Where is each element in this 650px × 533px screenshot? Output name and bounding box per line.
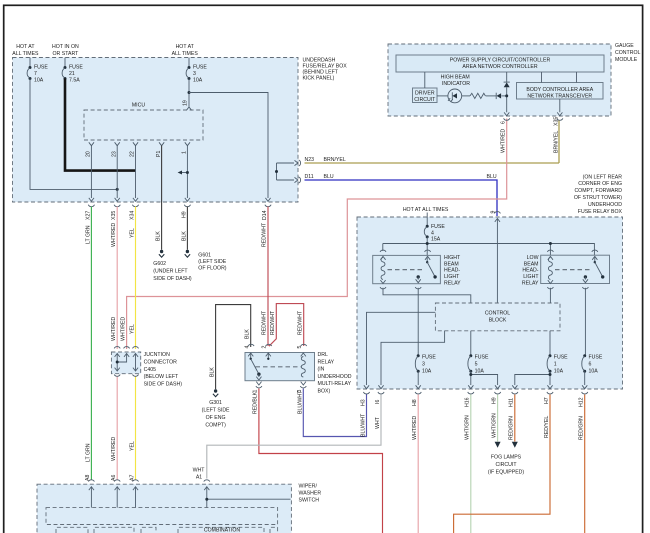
pin 5 DRL connector: [297, 344, 307, 356]
svg-text:BLU/WHT: BLU/WHT: [297, 390, 303, 414]
svg-text:A8: A8: [85, 475, 91, 481]
svg-text:20: 20: [86, 151, 92, 157]
LB relay coil: [548, 258, 552, 280]
svg-text:BLOCK: BLOCK: [489, 317, 507, 323]
fuse 4 15A: [424, 224, 445, 243]
high beam indicator lamp: [441, 75, 471, 103]
wire C405 internal YEL: [135, 354, 137, 371]
connector pin C405 top (YEL in): [133, 347, 139, 357]
svg-text:JUCNTION: JUCNTION: [144, 352, 170, 358]
node HOT AT ALL TIMES (fuse 3): [172, 44, 199, 57]
svg-text:CONTROL: CONTROL: [615, 50, 640, 56]
svg-text:WASHER: WASHER: [299, 491, 322, 497]
net D11 BLU label: [305, 174, 334, 180]
svg-text:WHT/RED: WHT/RED: [111, 223, 117, 247]
svg-text:RED/WHT: RED/WHT: [297, 310, 303, 335]
pin 22 MICU: [130, 142, 138, 157]
svg-text:I6: I6: [375, 400, 381, 404]
MICU box: [84, 103, 203, 140]
svg-text:COMBINATION: COMBINATION: [204, 528, 240, 533]
wire transceiver to pin X35: [559, 99, 561, 112]
svg-text:HOT IN ON: HOT IN ON: [52, 44, 79, 50]
svg-text:RED/YEL: RED/YEL: [544, 416, 550, 438]
svg-text:YEL: YEL: [130, 441, 136, 451]
wire BLU horizontal: [305, 174, 498, 216]
LB relay switch: [583, 256, 605, 282]
wire RED/GRN (H11 to fog lamps): [509, 395, 518, 448]
svg-text:6: 6: [500, 121, 506, 124]
svg-text:A7: A7: [129, 475, 135, 481]
svg-text:(BELOW LEFT: (BELOW LEFT: [144, 374, 179, 380]
svg-text:YEL: YEL: [130, 324, 136, 334]
svg-text:FUSE: FUSE: [422, 355, 436, 361]
svg-text:BLK: BLK: [245, 329, 251, 339]
wiper internal wires: [91, 487, 290, 508]
svg-text:FUSE: FUSE: [431, 224, 445, 230]
svg-text:ALL TIMES: ALL TIMES: [172, 51, 199, 57]
connector H16 exit: [465, 385, 474, 407]
svg-text:(UNDER LEFT: (UNDER LEFT: [153, 269, 188, 275]
pin A6 wiper entry: [111, 475, 120, 491]
wire RED/WHT (D14 to DRL relay pin 2): [262, 207, 268, 347]
pin 2 DRL connector: [262, 344, 272, 356]
wire controller through diode to pin 6: [505, 72, 508, 112]
wire control block left pin to H3 exit: [367, 312, 436, 385]
ground G601: [185, 250, 227, 272]
connector X35 exit: [111, 198, 120, 220]
body controller area network transceiver box: [517, 83, 604, 100]
wire BLK (MICU P1 to G602): [156, 146, 162, 250]
DRL switch (pin4 to pin1): [250, 353, 262, 380]
svg-text:FUSE: FUSE: [589, 355, 603, 361]
svg-text:H11: H11: [509, 398, 515, 407]
wire WHT/RED (H8 off page): [412, 395, 418, 533]
svg-text:ALL TIMES: ALL TIMES: [12, 51, 39, 57]
fuse 21 7.5A: [62, 58, 83, 84]
svg-text:COMPT, FORWARD: COMPT, FORWARD: [574, 188, 622, 194]
wire fuse3 output junction: [188, 79, 191, 107]
pin connector HB relay coil top: [380, 250, 386, 260]
underdash fuse/relay box: [13, 57, 348, 202]
svg-text:MULTI-RELAY: MULTI-RELAY: [318, 381, 352, 387]
underhood fuse relay box: [357, 174, 623, 389]
svg-text:BLU/WHT: BLU/WHT: [360, 413, 366, 437]
pin P1 MICU: [156, 142, 164, 157]
wire lamp to resistor: [462, 95, 470, 97]
svg-text:7.5A: 7.5A: [69, 77, 80, 83]
svg-text:CORNER OF ENG: CORNER OF ENG: [578, 181, 622, 187]
connector H11 exit: [509, 385, 518, 407]
pin connector HB relay switch top: [425, 250, 431, 260]
svg-text:RELAY: RELAY: [318, 359, 335, 365]
svg-text:FUSE: FUSE: [69, 65, 83, 71]
svg-text:5: 5: [297, 346, 303, 349]
node HOT AT ALL TIMES (fuse 7): [12, 44, 39, 57]
wire HB coil to control block: [383, 288, 471, 303]
svg-text:7: 7: [34, 71, 37, 77]
svg-text:D11: D11: [305, 174, 314, 180]
svg-text:FUSE: FUSE: [475, 355, 489, 361]
svg-text:10A: 10A: [34, 77, 44, 83]
connector pin C405 top (WHT/RED in): [114, 347, 120, 357]
svg-text:3: 3: [422, 362, 425, 368]
pin connector LB relay switch top: [592, 250, 598, 260]
svg-text:H12: H12: [579, 397, 585, 407]
svg-text:LOW: LOW: [527, 255, 539, 261]
svg-text:H9: H9: [182, 211, 188, 218]
svg-text:OF ENG: OF ENG: [206, 415, 226, 421]
svg-text:CIRCUIT: CIRCUIT: [495, 462, 517, 468]
svg-text:RED/WHT: RED/WHT: [262, 310, 268, 335]
diode D2 (vertical, on controller output): [504, 82, 510, 87]
svg-text:BOX): BOX): [318, 389, 331, 395]
svg-text:19: 19: [183, 100, 189, 106]
gauge control module box: [388, 43, 640, 116]
svg-text:BLK: BLK: [209, 367, 215, 377]
wire fuse 3 to H8 exit: [417, 371, 419, 385]
wire MICU pin22 to X34 exit: [135, 146, 137, 199]
ground G301: [202, 389, 230, 428]
fuse 7 10A: [27, 58, 48, 84]
svg-text:BEAM: BEAM: [524, 261, 539, 267]
svg-text:HOT AT: HOT AT: [16, 44, 35, 50]
svg-text:D14: D14: [262, 210, 268, 220]
svg-text:WHT/RED: WHT/RED: [500, 129, 506, 153]
wire YEL (X34 to C405): [130, 207, 136, 350]
wire control block to fuse 1: [549, 331, 551, 356]
svg-text:FUSE: FUSE: [193, 65, 207, 71]
svg-text:10A: 10A: [422, 369, 432, 375]
svg-text:INDICATOR: INDICATOR: [442, 81, 470, 87]
svg-text:UNDERHOOD: UNDERHOOD: [318, 374, 352, 380]
wire LT GRN (X27 to wiper A8): [85, 207, 91, 481]
svg-text:BLK: BLK: [156, 231, 162, 241]
svg-text:GAUGE: GAUGE: [615, 43, 634, 49]
svg-text:YEL: YEL: [130, 228, 136, 238]
wire MICU pin23 to X35 exit: [116, 146, 118, 199]
diode D1 (horizontal): [496, 93, 501, 99]
DRL mechanical link (dashed): [256, 366, 302, 368]
resistor R1: [470, 93, 485, 98]
pin connector LB relay coil top: [547, 250, 553, 260]
svg-text:HEAD-: HEAD-: [444, 268, 460, 274]
wire WHT/GRN (H9 to fog lamps): [491, 395, 500, 448]
svg-text:C405: C405: [144, 367, 157, 373]
svg-text:2: 2: [262, 346, 268, 349]
svg-text:POWER SUPPLY CIRCUIT/CONTROLLE: POWER SUPPLY CIRCUIT/CONTROLLER: [450, 57, 551, 63]
connector pin C405 bottom (WHT/RED out): [114, 368, 120, 377]
svg-text:H8: H8: [412, 399, 418, 406]
pin 23 MICU: [111, 142, 119, 157]
svg-text:RED/WHT: RED/WHT: [270, 310, 276, 335]
svg-text:G601: G601: [198, 253, 211, 259]
svg-text:(IF EQUIPPED): (IF EQUIPPED): [488, 470, 525, 476]
wire fuse 1 to H7 and H11 exits: [515, 371, 552, 385]
connector I6 exit: [375, 385, 384, 404]
svg-text:9: 9: [491, 211, 497, 214]
svg-text:22: 22: [130, 151, 136, 157]
DRL relay box: [245, 352, 352, 395]
svg-text:H9: H9: [491, 397, 497, 404]
low beam headlight relay box: [522, 255, 610, 286]
svg-text:15A: 15A: [431, 237, 441, 243]
svg-text:COMPT): COMPT): [205, 423, 226, 429]
node FOG LAMPS CIRCUIT: [488, 454, 525, 475]
svg-text:RED/WHT: RED/WHT: [262, 222, 268, 247]
svg-text:A6: A6: [111, 475, 117, 481]
wire HB relay output to fuse 3: [417, 288, 419, 356]
svg-text:FUSE: FUSE: [34, 65, 48, 71]
wire C405 internal WHT/RED split: [116, 354, 127, 371]
wire RED/WHT branch (pin 2 to pin 5 of DRL): [269, 304, 304, 347]
DRL pin 2 contact: [267, 353, 269, 360]
svg-text:G301: G301: [209, 400, 222, 406]
wire driver circuit to lamp: [437, 95, 448, 97]
svg-text:LT GRN: LT GRN: [85, 443, 91, 462]
wire BLK (DRL pin 4 to G301): [209, 305, 250, 390]
svg-text:HIGH BEAM: HIGH BEAM: [441, 75, 470, 81]
wire LB relay output to fuse 6: [584, 288, 586, 356]
svg-text:LT GRN: LT GRN: [85, 225, 91, 244]
fuse 1 10A: [547, 354, 568, 374]
fuse 3 10A: [415, 354, 436, 374]
wire BRN/YEL horizontal: [305, 162, 560, 164]
svg-text:FUSE RELAY BOX: FUSE RELAY BOX: [578, 209, 623, 215]
pin 4 DRL connector: [245, 344, 254, 356]
svg-text:RELAY: RELAY: [444, 280, 461, 286]
svg-text:X27: X27: [85, 211, 91, 220]
svg-text:OR START: OR START: [53, 51, 80, 57]
svg-text:HOT AT ALL TIMES: HOT AT ALL TIMES: [403, 207, 449, 213]
svg-text:1: 1: [182, 151, 188, 154]
connector D14 exit: [262, 198, 271, 220]
svg-text:23: 23: [111, 151, 117, 157]
pin 20 MICU: [86, 142, 94, 157]
svg-text:BLU: BLU: [487, 174, 497, 180]
connector H9 exit: [182, 198, 191, 218]
svg-text:G602: G602: [153, 261, 166, 267]
DRL relay coil: [301, 357, 305, 378]
svg-text:WHT/GRN: WHT/GRN: [465, 415, 471, 440]
svg-text:(LEFT SIDE: (LEFT SIDE: [202, 408, 230, 414]
svg-text:UNDERHOOD: UNDERHOOD: [588, 202, 622, 208]
HB relay coil: [381, 258, 385, 280]
pin connector HB relay output bottom: [415, 287, 421, 289]
wire WHT/RED (X35 to C405): [111, 207, 117, 350]
pin connector HB relay coil bottom: [380, 280, 386, 289]
svg-text:5: 5: [475, 362, 478, 368]
connector X34 exit: [130, 198, 139, 220]
node HOT IN ON OR START (fuse 21): [52, 44, 79, 57]
pin A7 wiper entry: [129, 475, 138, 491]
svg-text:WHT/RED: WHT/RED: [412, 416, 418, 440]
svg-text:BEAM: BEAM: [444, 261, 459, 267]
svg-text:WHT/RED: WHT/RED: [121, 317, 127, 341]
wire fuse3 branch to D14: [189, 93, 268, 199]
svg-text:WHT/RED: WHT/RED: [111, 437, 117, 461]
combination switch partial boxes: [56, 527, 278, 533]
svg-text:10A: 10A: [589, 369, 599, 375]
wire power supply to driver circuit: [424, 72, 426, 88]
svg-text:WHT: WHT: [193, 468, 206, 474]
svg-text:BODY CONTROLLER AREA: BODY CONTROLLER AREA: [526, 87, 593, 93]
wire BLK (H9 to G601): [181, 207, 187, 250]
svg-text:H7: H7: [544, 397, 550, 404]
svg-text:SIDE OF DASH): SIDE OF DASH): [144, 381, 183, 387]
wire YEL (C405 to wiper A7): [130, 377, 136, 481]
svg-text:SIDE OF DASH): SIDE OF DASH): [153, 276, 192, 282]
svg-text:WHT/RED: WHT/RED: [111, 317, 117, 341]
wiper inner dashed box: [46, 508, 278, 525]
svg-text:CIRCUIT: CIRCUIT: [414, 97, 436, 103]
pin connector LB relay coil bottom: [547, 280, 553, 289]
pin 1 DRL connector: [253, 382, 262, 393]
high beam headlight relay box: [373, 255, 461, 286]
svg-text:LIGHT: LIGHT: [444, 274, 460, 280]
svg-text:HOT AT: HOT AT: [176, 44, 195, 50]
wire resistor to diode: [486, 95, 496, 97]
arrow stub to other circuits at pin1 wire: [178, 171, 189, 175]
control block (dashed): [435, 303, 560, 331]
wire control block to I6 exit: [381, 331, 445, 385]
wire MICU pin1 to H9 exit: [186, 146, 188, 199]
pin 3 DRL connector: [297, 382, 306, 393]
wire BRN/YEL (gauge to horizontal run): [558, 121, 560, 164]
HB relay mechanical link (dashed): [388, 269, 425, 271]
connector pin C405 bottom (YEL out): [133, 368, 139, 377]
pin connector LB relay output bottom: [582, 287, 588, 289]
svg-text:N23: N23: [305, 157, 315, 163]
wire RED/YEL (H7 off page): [454, 395, 550, 533]
svg-text:6: 6: [589, 362, 592, 368]
wire diode to junction: [501, 95, 506, 97]
svg-text:3: 3: [193, 71, 196, 77]
svg-text:RED/BLK: RED/BLK: [253, 391, 259, 414]
svg-text:1: 1: [554, 362, 557, 368]
wire fuse4 to relays distribution: [383, 237, 595, 256]
svg-text:BLU: BLU: [324, 174, 334, 180]
wire WHT (I6 to wiper A1): [207, 395, 381, 479]
connector pin C405 top (WHT/RED branch out): [124, 347, 130, 357]
fuse 6 10A: [582, 354, 603, 374]
wire control block to fuse 5: [470, 331, 472, 356]
ground G602: [153, 250, 192, 282]
svg-text:21: 21: [69, 71, 75, 77]
HB relay switch: [416, 256, 437, 282]
wire RED/BLK (DRL pin 1 down and off page): [253, 389, 383, 533]
pin 1 MICU: [182, 142, 190, 154]
wire LB coil to control block: [549, 288, 551, 303]
svg-text:10A: 10A: [193, 77, 203, 83]
power supply circuit/controller area network controller box U1: [396, 55, 604, 72]
svg-text:SWITCH: SWITCH: [299, 497, 320, 503]
wire WHT/RED branch (C405 up to gauge): [121, 119, 507, 350]
net N23 BRN/YEL label: [305, 157, 346, 163]
connector H12 exit: [579, 385, 588, 407]
wire WHT/RED (C405 to wiper A6): [111, 377, 117, 481]
junction connector C405: [111, 352, 182, 387]
svg-text:4: 4: [245, 346, 251, 349]
connector H8 exit: [412, 385, 421, 406]
connector H7 exit: [544, 385, 553, 404]
pin 19 MICU entry: [183, 100, 192, 110]
svg-text:(LEFT SIDE: (LEFT SIDE: [198, 259, 226, 265]
svg-text:FUSE: FUSE: [554, 355, 568, 361]
connector H9 exit: [491, 385, 500, 404]
connector X27 exit: [85, 198, 94, 220]
pin X35 exit connector: [553, 112, 563, 153]
svg-text:WHT: WHT: [375, 416, 381, 429]
wire BLU/WHT (DRL pin 3 to underhood H3): [297, 389, 366, 437]
wire fuse 6 to H12 exit: [584, 371, 586, 385]
pin A8 wiper entry: [85, 475, 94, 491]
svg-text:X34: X34: [130, 211, 136, 220]
wire MICU pin20 to X27 exit: [90, 146, 92, 199]
svg-text:FOG LAMPS: FOG LAMPS: [491, 454, 522, 460]
svg-text:CONTROL: CONTROL: [485, 310, 510, 316]
wire WHT/GRN (H16 off page): [465, 395, 471, 533]
svg-text:H16: H16: [465, 397, 471, 407]
svg-text:BLK: BLK: [181, 231, 187, 241]
svg-text:OF FLOOR): OF FLOOR): [198, 266, 227, 272]
svg-text:X35: X35: [111, 211, 117, 220]
wire fuse 4 feed: [426, 213, 428, 227]
svg-text:HEAD-: HEAD-: [522, 268, 538, 274]
wiper/washer switch box: [37, 484, 321, 533]
svg-text:KICK PANEL): KICK PANEL): [303, 75, 335, 81]
svg-text:MICU: MICU: [132, 103, 146, 109]
svg-text:(IN: (IN: [318, 367, 325, 373]
svg-text:A1: A1: [196, 475, 202, 481]
connector H3 exit: [360, 385, 369, 437]
fuse 3 10A: [186, 58, 207, 84]
svg-text:P1: P1: [156, 151, 162, 157]
svg-text:HIGHT: HIGHT: [444, 255, 461, 261]
LB relay mechanical link (dashed): [555, 269, 592, 271]
wire power supply to transceiver (right): [576, 72, 578, 83]
fuse 5 10A: [468, 354, 489, 374]
svg-text:DRIVER: DRIVER: [415, 91, 435, 97]
pin 6 exit connector: [500, 112, 510, 153]
wire fuse21 output (thick) to X34 column: [65, 79, 136, 171]
svg-text:H3: H3: [360, 399, 366, 406]
svg-text:RELAY: RELAY: [522, 280, 539, 286]
svg-text:10A: 10A: [554, 369, 564, 375]
svg-text:LIGHT: LIGHT: [523, 274, 539, 280]
wire fuse 5 to H16 and H9 exits: [469, 371, 497, 385]
wire fuse7 output to X35 column: [30, 79, 119, 191]
svg-text:WHT/GRN: WHT/GRN: [491, 413, 497, 438]
wire power supply to transceiver (left): [541, 72, 543, 83]
svg-text:AREA NETWOR CONTROLLER: AREA NETWOR CONTROLLER: [462, 64, 537, 70]
wire RED/GRN (H12 off page): [579, 395, 585, 533]
svg-text:RED/GRN: RED/GRN: [579, 416, 585, 440]
svg-text:BRN/YEL: BRN/YEL: [324, 157, 346, 163]
bracket node N23/D11: [275, 160, 301, 183]
driver circuit box: [413, 88, 438, 103]
pin 9 underhood entry connector: [491, 211, 501, 222]
svg-text:DRL: DRL: [318, 352, 328, 358]
svg-text:(ON LEFT REAR: (ON LEFT REAR: [583, 174, 623, 180]
svg-text:MODULE: MODULE: [615, 57, 638, 63]
svg-text:RED/GRN: RED/GRN: [509, 416, 515, 440]
svg-text:10A: 10A: [475, 369, 485, 375]
svg-text:NETWORK TRANSCEIVER: NETWORK TRANSCEIVER: [527, 93, 592, 99]
svg-text:WIPER/: WIPER/: [299, 484, 318, 490]
svg-text:CONNECTOR: CONNECTOR: [144, 360, 178, 366]
pin A1 wiper entry: [193, 468, 210, 491]
wire pin9 to control block: [496, 219, 498, 304]
